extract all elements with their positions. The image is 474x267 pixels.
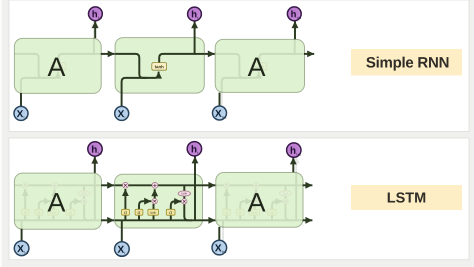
wire A1 to B1 arrow [101, 53, 115, 55]
wire A2 x in [21, 229, 23, 241]
cell box C1 [215, 39, 304, 92]
node h(t+1) bottom [287, 143, 301, 157]
wire B2 to C2 hidden arrow [203, 219, 216, 221]
wire B2 to C2 cell arrow [203, 184, 216, 186]
node h(t) top [188, 7, 202, 21]
bold internals B1 [115, 21, 204, 106]
faint internals C2 [216, 156, 304, 241]
wire A1 x in [20, 93, 22, 107]
faint internals A1 [14, 21, 103, 106]
card row2 [9, 138, 469, 260]
node x(t-1) top row [14, 106, 28, 120]
wire C2 h out [292, 157, 294, 172]
node x(t) top row [115, 106, 129, 120]
cell box B1 (repeating module) [115, 38, 204, 94]
svg-text:A: A [248, 187, 266, 217]
cell box B2 (repeating module) [115, 174, 203, 228]
wire C2 cell out arrow [303, 184, 313, 186]
label LSTM [351, 185, 462, 210]
svg-text:A: A [248, 52, 266, 82]
wire A1 h out [94, 21, 96, 38]
node h(t-1) top [89, 7, 103, 21]
svg-text:Simple RNN: Simple RNN [366, 54, 449, 71]
wire A2 h out [94, 157, 96, 173]
cell box A1 [14, 38, 101, 93]
label Simple RNN [351, 49, 462, 76]
svg-text:A: A [47, 187, 65, 217]
wire B1 to C1 arrow [204, 53, 215, 55]
wire A2 to B2 cell arrow [101, 184, 114, 186]
wire C1 x in [219, 93, 221, 107]
cell box A2 [14, 173, 101, 229]
node x(t+1) top row [213, 106, 227, 120]
wire C1 out arrow [304, 53, 314, 55]
node h(t-1) bottom [88, 142, 102, 156]
bold internals B2 [115, 156, 203, 241]
node h(t) bottom [187, 142, 201, 156]
faint internals C1 [215, 21, 304, 106]
cell box C2 [216, 173, 303, 228]
node x(t-1) bottom row [14, 241, 29, 256]
card row1 [9, 0, 469, 132]
svg-text:LSTM: LSTM [387, 191, 426, 207]
node x(t+1) bottom row [212, 240, 227, 255]
wire C2 hidden out arrow [303, 219, 313, 221]
wire C2 x in [218, 227, 220, 240]
svg-text:A: A [47, 52, 65, 82]
node h(t+1) top [287, 7, 301, 21]
faint internals A2 [14, 156, 102, 241]
node x(t) bottom row [115, 242, 130, 257]
wire A2 to B2 hidden arrow [101, 219, 114, 221]
wire C1 h out [294, 21, 296, 39]
